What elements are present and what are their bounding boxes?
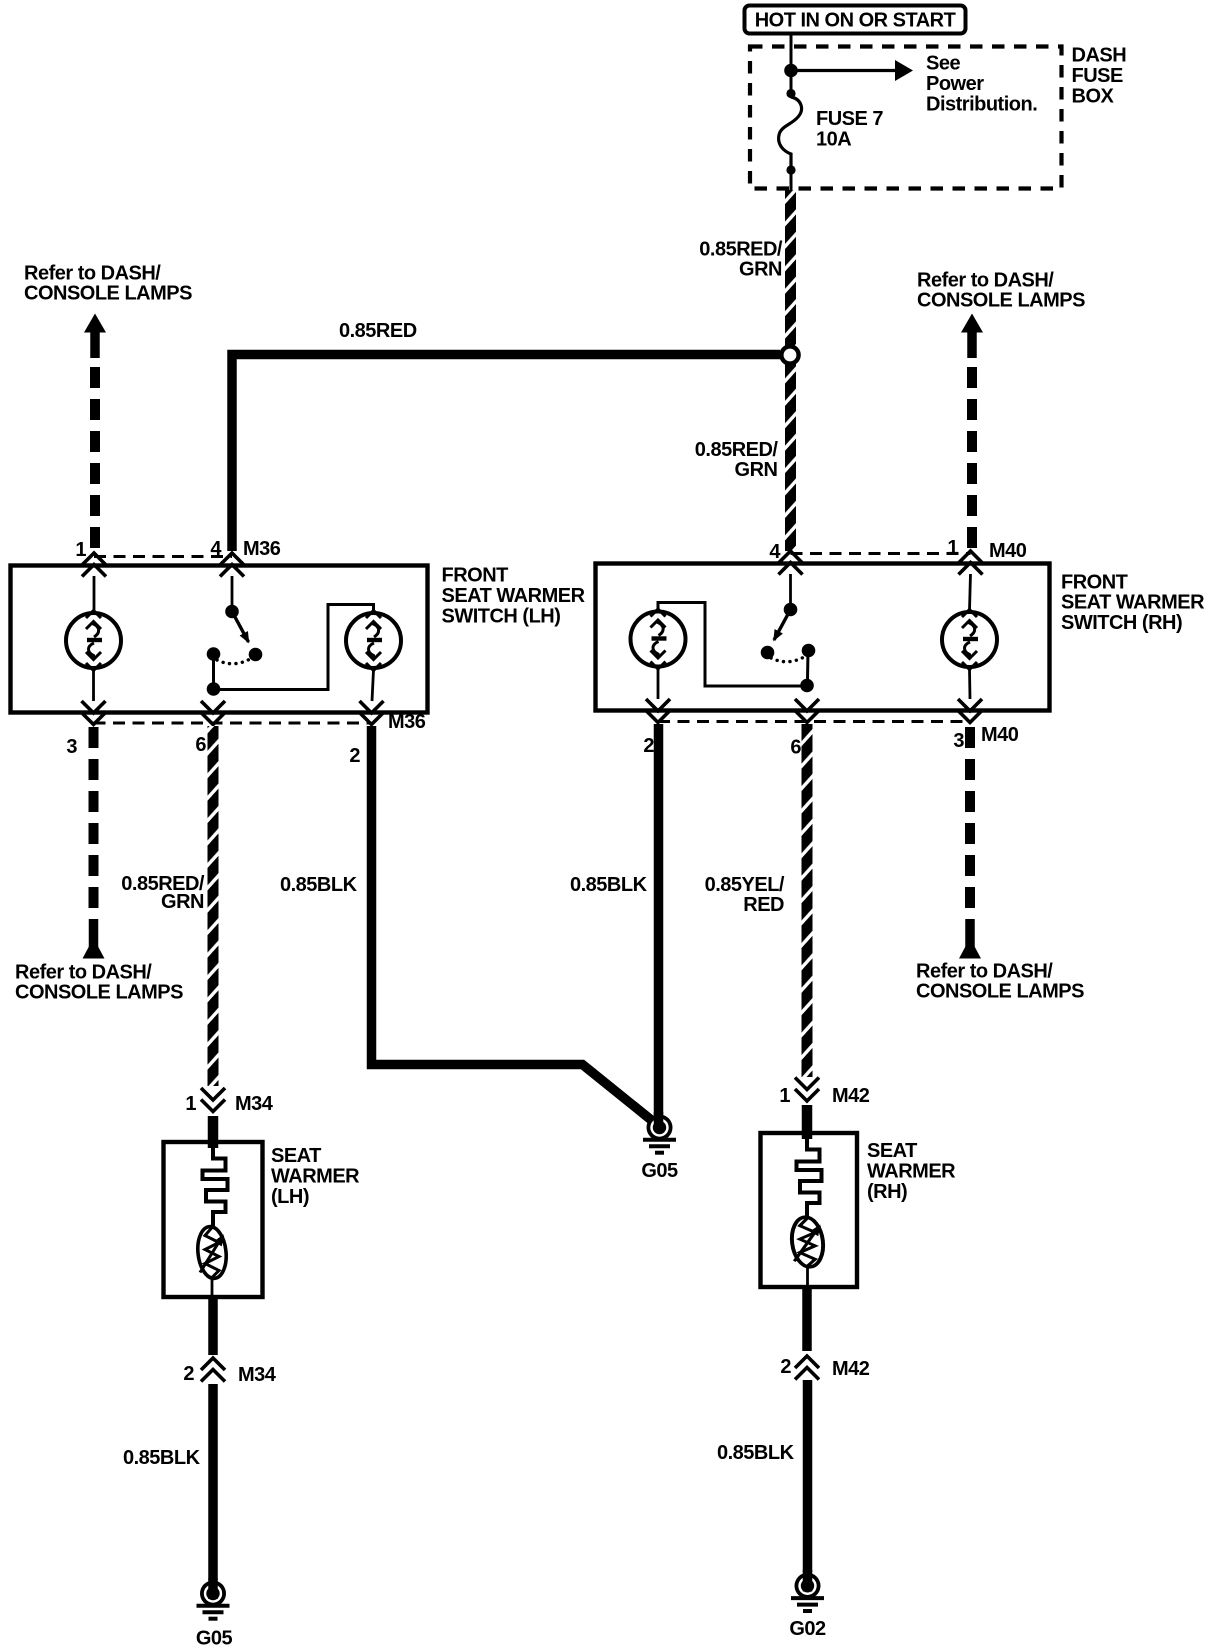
node RH switch left contact: [761, 646, 775, 660]
ground G05 middle: [643, 1115, 676, 1153]
svg-text:SEAT: SEAT: [271, 1145, 321, 1167]
svg-text:SEAT WARMER: SEAT WARMER: [442, 585, 586, 607]
svg-text:Power: Power: [926, 73, 984, 95]
svg-text:2: 2: [643, 735, 654, 757]
switch arm RH: [774, 610, 791, 641]
node LH switch common contact: [225, 605, 239, 619]
wire M34 to seat warmer LH box: [208, 1116, 219, 1148]
lamp LH indicator left: [66, 611, 121, 671]
label 0.85RED/GRN lower: [695, 439, 779, 481]
wire dashed LH pin 3 down off-page arrow: [83, 727, 105, 959]
label FRONT SEAT WARMER SWITCH (LH): [442, 565, 586, 628]
wire RH right contact down to node: [806, 651, 810, 681]
lamp RH indicator left: [631, 609, 686, 669]
svg-text:Refer to DASH/: Refer to DASH/: [24, 263, 161, 285]
wire thermostat to box edge RH: [806, 1268, 809, 1287]
svg-text:10A: 10A: [816, 129, 851, 151]
svg-text:M36: M36: [243, 538, 281, 560]
wire RH output jog to left lamp: [658, 603, 807, 687]
heater R2 SEAT WARMER (RH) box: [761, 1133, 858, 1287]
pin 4 connector chevrons RH switch top: [779, 551, 803, 575]
label DASH FUSE BOX: [1072, 45, 1127, 108]
wire 0.85BLK thick RH pin 2 to ground G05: [654, 724, 664, 1118]
heater R1 SEAT WARMER (LH) box: [164, 1142, 263, 1297]
svg-text:WARMER: WARMER: [867, 1161, 956, 1183]
connector alignment dashed line M40 top: [791, 552, 971, 555]
connector M34 pin 1 chevrons: [201, 1088, 225, 1112]
wire seat warmer RH to M42 pin 2: [802, 1287, 812, 1351]
svg-text:6: 6: [195, 734, 206, 756]
label Refer to DASH/CONSOLE LAMPS bottom right: [916, 961, 1084, 1003]
svg-text:FUSE 7: FUSE 7: [816, 108, 883, 130]
label Refer to DASH/CONSOLE LAMPS top right: [917, 270, 1085, 312]
svg-text:FRONT: FRONT: [1061, 572, 1128, 594]
pin 4 connector chevrons LH switch top: [220, 553, 244, 577]
switch U2 FRONT SEAT WARMER SWITCH (RH) box: [596, 564, 1050, 711]
svg-text:0.85YEL/: 0.85YEL/: [705, 874, 785, 896]
label SEAT WARMER (RH): [867, 1140, 956, 1203]
fuse FUSE 7 10A element: [779, 97, 802, 168]
svg-text:2: 2: [183, 1363, 194, 1385]
node LH switch output junction: [207, 682, 221, 696]
svg-text:FRONT: FRONT: [442, 565, 509, 587]
wire LH output jog to right lamp: [214, 605, 374, 690]
connector M42 pin 2 chevrons: [795, 1356, 819, 1380]
svg-text:2: 2: [349, 745, 360, 767]
wire 0.85BLK M34 to ground G05: [208, 1384, 218, 1580]
wire pin4 to RH switch common: [789, 574, 792, 604]
dash fuse box dashed border: [750, 47, 1062, 189]
dotted travel arc LH switch: [217, 659, 250, 664]
svg-text:(LH): (LH): [271, 1186, 309, 1208]
wire RH right lamp to pin 3: [968, 669, 971, 699]
ground G02: [791, 1573, 824, 1611]
fuse F7 bottom terminal dot: [786, 165, 795, 174]
wire dashed off-page arrow up to dash/console lamps RH pin 1: [961, 314, 983, 549]
connector alignment dashed line M36 top: [94, 555, 232, 558]
svg-text:G05: G05: [196, 1628, 233, 1650]
svg-text:RED: RED: [743, 894, 784, 916]
connector alignment dashed line M36 bottom: [94, 722, 372, 725]
lamp RH indicator right: [942, 610, 997, 670]
pin 1 connector chevrons LH switch top: [82, 553, 106, 577]
svg-text:3: 3: [66, 736, 77, 758]
svg-text:SWITCH (LH): SWITCH (LH): [442, 606, 561, 628]
svg-text:G02: G02: [789, 1618, 826, 1640]
pin 6 connector chevrons LH bottom: [201, 701, 225, 725]
svg-text:(RH): (RH): [867, 1181, 907, 1203]
svg-text:GRN: GRN: [161, 891, 204, 913]
svg-text:M40: M40: [981, 724, 1019, 746]
svg-text:4: 4: [210, 538, 222, 560]
label 0.85RED/GRN at LH pin 6 wire: [121, 873, 205, 913]
svg-text:See: See: [926, 53, 960, 75]
pin 3 connector chevrons RH bottom: [958, 699, 982, 723]
svg-text:3: 3: [953, 730, 964, 752]
svg-text:FUSE: FUSE: [1072, 65, 1124, 87]
wire RH left lamp to pin 2: [657, 669, 660, 699]
svg-text:HOT IN ON OR START: HOT IN ON OR START: [755, 10, 956, 32]
wire from HOT IN feed into fuse box: [790, 34, 793, 97]
svg-text:1: 1: [947, 537, 958, 559]
svg-text:Refer to DASH/: Refer to DASH/: [917, 270, 1054, 292]
wire LH lamp to pin 3: [92, 670, 95, 701]
svg-text:G05: G05: [641, 1160, 678, 1182]
node junction dot in fuse box: [784, 64, 798, 78]
connector M42 pin 1 chevrons: [795, 1078, 819, 1102]
svg-text:SEAT: SEAT: [867, 1140, 917, 1162]
wire 0.85BLK thick LH pin 2 to ground G05: [372, 726, 656, 1123]
wire 0.85YEL/RED striped RH pin 6 to M42: [802, 724, 813, 1077]
svg-text:1: 1: [75, 539, 86, 561]
svg-text:CONSOLE LAMPS: CONSOLE LAMPS: [916, 981, 1084, 1003]
svg-text:M34: M34: [235, 1093, 274, 1115]
label Refer to DASH/CONSOLE LAMPS bottom left: [15, 962, 183, 1004]
wire M42 to seat warmer RH box: [802, 1105, 813, 1139]
pin 2 connector chevrons RH bottom: [646, 699, 670, 723]
connector alignment dashed line M40 bottom: [658, 720, 970, 723]
svg-text:0.85RED/: 0.85RED/: [695, 439, 779, 461]
svg-text:0.85BLK: 0.85BLK: [570, 874, 648, 896]
svg-text:Refer to DASH/: Refer to DASH/: [916, 961, 1053, 983]
lamp LH indicator right: [346, 611, 401, 671]
label See Power Distribution.: [926, 53, 1037, 116]
svg-text:0.85BLK: 0.85BLK: [717, 1442, 795, 1464]
svg-text:WARMER: WARMER: [271, 1166, 360, 1188]
wire 0.85RED/GRN striped from fuse box to junction: [785, 190, 796, 346]
wire dashed off-page arrow up to dash/console lamps LH pin 1: [84, 314, 106, 549]
label Refer to DASH/CONSOLE LAMPS top left: [24, 263, 192, 305]
switch arm LH: [232, 612, 249, 643]
svg-text:GRN: GRN: [735, 459, 778, 481]
label SEAT WARMER (LH): [271, 1145, 360, 1208]
node RH switch right contact: [802, 644, 816, 658]
pin 6 connector chevrons RH bottom: [795, 699, 819, 723]
label 0.85RED/GRN upper: [699, 239, 783, 281]
node junction ring at 0.85RED tap: [781, 346, 798, 363]
node RH switch output junction: [800, 679, 814, 693]
wire dashed RH pin 3 down off-page arrow: [959, 727, 981, 959]
svg-text:0.85RED/: 0.85RED/: [699, 239, 783, 261]
svg-text:M42: M42: [832, 1358, 870, 1380]
wire LH right lamp to pin 2: [372, 670, 374, 701]
dotted travel arc RH switch: [771, 657, 804, 662]
wire thermostat to box edge LH: [211, 1278, 214, 1297]
svg-text:6: 6: [790, 737, 801, 759]
svg-text:Distribution.: Distribution.: [926, 94, 1037, 116]
svg-text:M42: M42: [832, 1085, 870, 1107]
thermostat seat warmer RH: [789, 1216, 826, 1268]
pin 3 connector chevrons LH bottom: [82, 701, 106, 725]
fuse F7 top terminal dot: [786, 89, 795, 98]
svg-text:CONSOLE LAMPS: CONSOLE LAMPS: [15, 982, 183, 1004]
svg-text:SEAT WARMER: SEAT WARMER: [1061, 592, 1205, 614]
svg-text:1: 1: [185, 1093, 196, 1115]
wire 0.85BLK M42 to ground G02: [803, 1380, 813, 1572]
wire LH left contact down to node: [212, 654, 215, 684]
wire pin1 to LH indicator lamp: [93, 576, 96, 611]
thermostat seat warmer LH: [195, 1225, 228, 1280]
svg-text:BOX: BOX: [1072, 86, 1115, 108]
wire seat warmer LH to M34 pin 2: [208, 1297, 218, 1355]
wire fuse to box edge: [790, 172, 793, 190]
svg-text:SWITCH (RH): SWITCH (RH): [1061, 612, 1182, 634]
svg-text:0.85BLK: 0.85BLK: [123, 1447, 201, 1469]
svg-text:4: 4: [769, 541, 781, 563]
wire 0.85RED/GRN striped junction to RH switch pin 4: [785, 364, 796, 551]
power label box HOT IN ON OR START: [745, 6, 966, 34]
label 0.85YEL/RED: [705, 874, 785, 916]
svg-text:M36: M36: [388, 711, 426, 733]
node LH switch right contact: [249, 648, 263, 662]
svg-text:0.85BLK: 0.85BLK: [280, 874, 358, 896]
switch U1 FRONT SEAT WARMER SWITCH (LH) box: [11, 566, 428, 713]
svg-text:CONSOLE LAMPS: CONSOLE LAMPS: [24, 283, 192, 305]
node LH switch left contact: [207, 647, 221, 661]
svg-text:0.85RED: 0.85RED: [339, 320, 417, 342]
pin 1 connector chevrons RH switch top: [959, 551, 983, 575]
wire pin1 to RH right lamp: [970, 574, 971, 610]
svg-text:DASH: DASH: [1072, 45, 1127, 67]
label FUSE 7 10A: [816, 108, 883, 151]
svg-text:CONSOLE LAMPS: CONSOLE LAMPS: [917, 290, 1085, 312]
node RH switch common contact: [784, 603, 798, 617]
connector M34 pin 2 chevrons: [201, 1358, 225, 1382]
label FRONT SEAT WARMER SWITCH (RH): [1061, 572, 1205, 635]
resistor element seat warmer LH: [203, 1148, 228, 1227]
pin 2 connector chevrons LH bottom: [360, 701, 384, 725]
svg-text:M40: M40: [989, 540, 1027, 562]
arrow See Power Distribution: [791, 60, 913, 81]
svg-text:1: 1: [779, 1085, 790, 1107]
wire pin4 to LH switch common: [231, 576, 234, 606]
svg-text:GRN: GRN: [739, 259, 782, 281]
svg-text:Refer to DASH/: Refer to DASH/: [15, 962, 152, 984]
ground G05 bottom left: [197, 1581, 230, 1619]
svg-text:M34: M34: [238, 1364, 277, 1386]
wire 0.85RED thick from junction to LH switch pin 4: [232, 355, 780, 552]
wire 0.85RED/GRN striped LH pin 6 to M34: [208, 726, 219, 1086]
svg-text:2: 2: [780, 1356, 791, 1378]
resistor element seat warmer RH: [797, 1139, 822, 1217]
